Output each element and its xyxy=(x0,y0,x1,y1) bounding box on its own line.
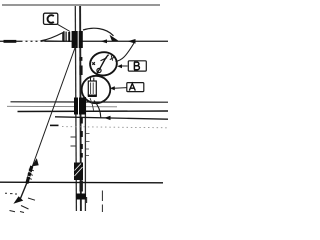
primary conductor xyxy=(0,40,168,42)
anchor hatching xyxy=(5,193,35,212)
dotted section of conductor xyxy=(23,40,45,42)
splice on conductor xyxy=(4,40,17,43)
secondary line 2 gray xyxy=(7,105,117,108)
plus mark xyxy=(110,55,114,60)
arrow from B xyxy=(121,65,128,67)
jumper arrowhead xyxy=(110,35,119,41)
arrow with drop to cutout xyxy=(128,39,136,44)
cutout ellipse B xyxy=(89,50,119,77)
pole step ticks right xyxy=(86,134,90,156)
wedge end bars xyxy=(63,31,64,42)
transformer bushings xyxy=(91,78,94,82)
secondary rack black mass xyxy=(74,98,86,115)
drip loop 2 xyxy=(90,98,94,111)
guy wire xyxy=(29,45,77,177)
pole butt below ground xyxy=(76,194,86,200)
hatched pole section xyxy=(74,163,83,181)
transformer base xyxy=(88,95,97,97)
jumper curve from pole top xyxy=(83,28,114,36)
transformer ellipse A xyxy=(82,76,111,103)
transformer can xyxy=(88,81,96,95)
leader from C xyxy=(58,24,71,31)
cutout symbol blade xyxy=(97,55,109,74)
label B box xyxy=(128,61,146,71)
dotted service line xyxy=(62,127,168,128)
pole dark segment above ground xyxy=(80,181,83,192)
arrow from A xyxy=(114,87,127,90)
top boundary gray line xyxy=(2,4,160,6)
pole right line xyxy=(79,6,82,211)
drip loop 1 xyxy=(94,101,101,118)
pole step ticks left xyxy=(71,137,77,146)
pole butt foot line xyxy=(86,197,88,203)
secondary line 1 xyxy=(11,101,169,103)
secondary line 4 xyxy=(55,117,168,119)
pole dark dashes lower xyxy=(80,118,83,158)
label A box xyxy=(127,83,144,92)
cutout symbol circle xyxy=(97,68,101,72)
jumper down to cutout xyxy=(116,43,135,62)
small arrow on conductor xyxy=(101,39,108,43)
arrow on secondary line 4 xyxy=(104,116,111,120)
cutout crossbar xyxy=(101,58,108,61)
ground line xyxy=(0,181,163,184)
secondary line 3 xyxy=(18,110,169,113)
bracket bar xyxy=(68,32,70,42)
anchor rod xyxy=(20,183,27,200)
pole left line xyxy=(75,6,76,211)
anchor arrowhead xyxy=(13,196,23,204)
pole dark dashes upper xyxy=(79,57,82,61)
guy arrowhead xyxy=(32,158,39,166)
pole ground wire xyxy=(84,97,86,211)
below ground dashed line xyxy=(101,191,103,213)
dark dash left of dotted line xyxy=(50,124,59,126)
junction star xyxy=(92,62,95,65)
label C box xyxy=(44,13,58,24)
deadend wedge insulator xyxy=(41,33,63,42)
guy grip hatched xyxy=(27,166,32,184)
can ribs xyxy=(91,83,94,95)
pole top black mass xyxy=(72,31,83,48)
